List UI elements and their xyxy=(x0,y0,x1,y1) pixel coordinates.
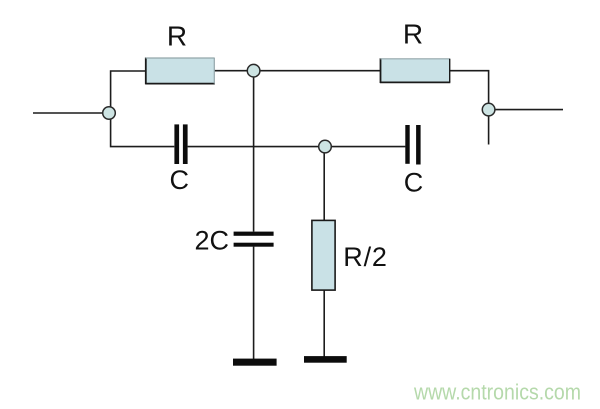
capacitor C3 (2C) plates xyxy=(234,232,274,247)
resistor R2 xyxy=(380,58,450,83)
node C (C1/C2 junction) xyxy=(319,140,332,153)
resistor R1 xyxy=(145,58,215,85)
wire: node C down to R3 top xyxy=(323,147,325,221)
svg-text:R: R xyxy=(403,19,423,50)
wire: R2 right down to node D xyxy=(450,71,489,110)
wire: R1 right to node B xyxy=(215,70,254,72)
wire: C1 right to node C xyxy=(188,146,325,148)
resistor R3 (R/2) xyxy=(312,220,335,290)
svg-text:C: C xyxy=(404,168,424,198)
wire: R3 bottom to ground xyxy=(323,290,325,357)
svg-text:R: R xyxy=(167,21,187,52)
wire: output lead xyxy=(489,109,563,111)
svg-text:R/2: R/2 xyxy=(343,242,387,272)
node B (R1/R2 junction) xyxy=(247,64,260,77)
capacitor C1 plates xyxy=(174,124,187,164)
wire: node D stub down xyxy=(488,110,490,145)
wire: node B to R2 left xyxy=(254,70,381,72)
svg-text:www.cntronics.com: www.cntronics.com xyxy=(413,379,581,404)
wire: input lead xyxy=(33,112,109,114)
ground G2 xyxy=(304,356,347,363)
svg-text:C: C xyxy=(169,165,189,195)
wire: node C to C2 left xyxy=(325,146,405,148)
ground G1 xyxy=(233,359,277,366)
wire: node A down to C1 left xyxy=(111,113,175,147)
svg-text:2C: 2C xyxy=(195,226,230,256)
node A (input junction) xyxy=(103,107,116,120)
wire: node B down to 2C top xyxy=(253,71,255,232)
wire: node A up to R1 left xyxy=(111,71,146,113)
node D (output junction) xyxy=(482,103,495,116)
capacitor C2 plates xyxy=(405,125,420,165)
wire: 2C bottom to ground xyxy=(253,247,255,359)
